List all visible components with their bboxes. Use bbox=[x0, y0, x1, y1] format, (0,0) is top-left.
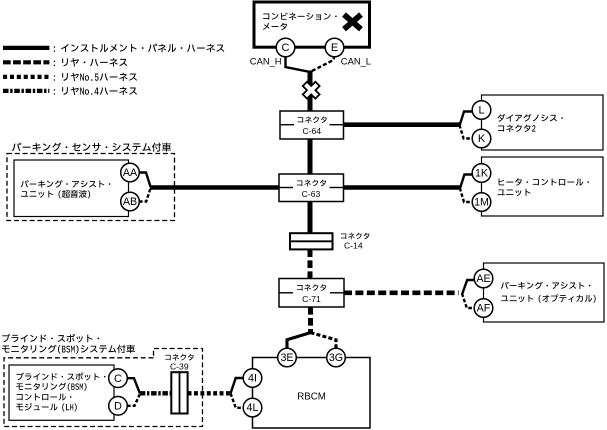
svg-text:D: D bbox=[114, 401, 122, 413]
text diag1 bbox=[497, 114, 562, 122]
text legend2 bbox=[54, 58, 128, 66]
svg-text:3G: 3G bbox=[329, 352, 343, 364]
text pkhdr bbox=[12, 142, 171, 151]
wire: rear No.4 harness dash-dot to C-39 bbox=[140, 391, 172, 395]
text meter2 bbox=[263, 23, 287, 30]
wire: branch to K (dashed) bbox=[459, 125, 473, 139]
BSM system dashed box (with notch around C-39) bbox=[4, 349, 203, 427]
svg-text:AE: AE bbox=[476, 273, 490, 285]
svg-text:E: E bbox=[331, 42, 338, 54]
connector C-39 (inline connector symbol) bbox=[171, 372, 187, 413]
parking assist unit (optical) box bbox=[484, 263, 605, 322]
legend sample: rear harness (dashed) bbox=[3, 60, 49, 64]
svg-text:C-64: C-64 bbox=[302, 126, 321, 136]
legend sample: rear No.4 harness (dash-dot) bbox=[3, 89, 49, 93]
svg-text:4L: 4L bbox=[247, 402, 259, 414]
text bsm4 bbox=[16, 403, 77, 411]
text pk2 bbox=[21, 190, 90, 198]
legend sample: instrument panel harness (solid) bbox=[3, 46, 49, 50]
terminal circle 1M (heater) bbox=[472, 193, 491, 212]
wire: rear No.5 harness dotted C-39 to RBCM bbox=[188, 391, 231, 395]
svg-text:3E: 3E bbox=[280, 352, 293, 364]
wire: branch to 4I (solid) bbox=[231, 378, 244, 393]
wire: thick bus C-64 to right (to diagnosis connector) bbox=[344, 122, 460, 127]
terminal circle E (meter) bbox=[325, 38, 344, 57]
svg-text:C-71: C-71 bbox=[302, 294, 321, 304]
terminal circle 1K (heater) bbox=[472, 164, 491, 183]
wire: branch from AB (dashed) bbox=[139, 188, 151, 202]
text heat1 bbox=[499, 178, 589, 185]
terminal circle K (diagnosis) bbox=[472, 129, 491, 148]
svg-text:AF: AF bbox=[477, 302, 491, 314]
svg-text:C-14: C-14 bbox=[344, 241, 363, 251]
text legend1 bbox=[54, 44, 225, 52]
text opt1 bbox=[501, 282, 591, 290]
combination meter box bbox=[254, 2, 370, 47]
terminal circle AE (parking optical) bbox=[474, 269, 493, 288]
text bsmh2 bbox=[2, 345, 135, 354]
terminal circle C (meter) bbox=[276, 38, 295, 57]
wire: vertical bus C-63 to C-14 bbox=[308, 202, 313, 234]
connector C-71 box bbox=[279, 279, 344, 308]
svg-text:CAN_H: CAN_H bbox=[250, 56, 282, 67]
text bsm3 bbox=[17, 393, 72, 400]
wire: thick dashed bus C-71 to right (parking optical) bbox=[344, 290, 459, 295]
wire: branch to 3G (dashed) bbox=[311, 333, 337, 349]
text c71l bbox=[297, 284, 326, 291]
wire: branch to 4L (dashed) bbox=[231, 393, 244, 407]
wire: branch to AE (solid) bbox=[462, 280, 475, 295]
wire: branch to 1M (dashed) bbox=[460, 188, 473, 202]
bold X mark in meter box bbox=[344, 15, 361, 30]
svg-text:4I: 4I bbox=[248, 372, 257, 384]
svg-text:CAN_L: CAN_L bbox=[341, 56, 371, 67]
wire: CAN_L dashed branch from E bbox=[312, 56, 335, 72]
terminal circle AF (parking optical) bbox=[474, 299, 493, 318]
text diag2 bbox=[498, 125, 536, 132]
terminal circle 3G (RBCM) bbox=[327, 348, 346, 367]
svg-text:AA: AA bbox=[123, 167, 138, 179]
wire: vertical bus C-64 to C-63 bbox=[308, 139, 313, 174]
connector C-63 box bbox=[279, 174, 344, 202]
wire: branch to 3E (solid) bbox=[287, 333, 311, 349]
RBCM box bbox=[253, 358, 371, 429]
heater control unit box bbox=[482, 157, 604, 216]
wire: vertical bus meter junction to C-64 bbox=[308, 71, 313, 113]
terminal circle AA (parking ultrasonic) bbox=[121, 163, 140, 182]
BSM control module box bbox=[9, 365, 114, 420]
wire: branch to 1K (solid) bbox=[460, 175, 473, 190]
wire: bus junction below meter to C-64 (instrument panel harness) bbox=[286, 56, 310, 72]
text heat2 bbox=[498, 189, 531, 196]
parking assist unit (ultrasonic) box bbox=[14, 160, 129, 217]
svg-text:RBCM: RBCM bbox=[297, 392, 326, 403]
text legend3 bbox=[54, 73, 137, 81]
no-connection X symbol on bus bbox=[299, 78, 324, 103]
svg-text:C: C bbox=[282, 42, 290, 54]
terminal circle 4I (RBCM) bbox=[243, 369, 262, 388]
wire: branch from AA (solid) bbox=[139, 173, 151, 188]
svg-text:C: C bbox=[114, 373, 122, 385]
terminal circle 3E (RBCM) bbox=[278, 348, 297, 367]
text meter1 bbox=[263, 13, 337, 21]
text opt2 bbox=[501, 294, 596, 302]
wire: vertical dashed bus C-71 down to RBCM branch bbox=[308, 307, 313, 333]
connector C-14 (inline connector symbol) bbox=[290, 233, 333, 249]
svg-text:1M: 1M bbox=[474, 196, 489, 208]
svg-text:C-63: C-63 bbox=[302, 189, 321, 199]
text c14l bbox=[341, 233, 369, 239]
parking sensor system dashed box bbox=[7, 154, 175, 221]
terminal circle L (diagnosis) bbox=[472, 101, 491, 120]
terminal circle C (BSM) bbox=[109, 369, 128, 388]
wire: branch from D bsm (dashed) bbox=[127, 394, 140, 406]
text pk1 bbox=[21, 180, 111, 188]
text bsm2 bbox=[16, 383, 86, 391]
text bsm1 bbox=[16, 373, 105, 381]
terminal circle 4L (RBCM) bbox=[243, 398, 262, 417]
connector C-64 box bbox=[280, 111, 344, 139]
text c63l bbox=[297, 180, 326, 187]
wire: branch to AF (dashed) bbox=[462, 294, 475, 309]
text bsmh1 bbox=[2, 334, 99, 343]
svg-text:C-39: C-39 bbox=[170, 361, 189, 371]
svg-text:K: K bbox=[478, 133, 486, 145]
text c64l bbox=[298, 116, 327, 123]
wire: thick bus parking assist to C-63 bbox=[150, 185, 279, 190]
wire: branch from C bsm (solid) bbox=[127, 378, 140, 393]
svg-text:L: L bbox=[478, 105, 484, 117]
wire: thick bus C-63 to right (heater control) bbox=[344, 185, 461, 190]
terminal circle D (BSM) bbox=[109, 397, 128, 416]
svg-text:1K: 1K bbox=[475, 167, 489, 179]
legend sample: rear No.5 harness (dotted) bbox=[3, 75, 49, 79]
diagnosis connector 2 box bbox=[482, 95, 604, 150]
wire: branch to L (solid) bbox=[459, 112, 473, 127]
terminal circle AB (parking ultrasonic) bbox=[121, 192, 140, 211]
wire: vertical bus C-14 to C-71 (rear harness, dashed) bbox=[308, 249, 313, 278]
text legend4 bbox=[54, 87, 137, 95]
svg-text:AB: AB bbox=[123, 196, 137, 208]
text c39l bbox=[165, 354, 193, 360]
